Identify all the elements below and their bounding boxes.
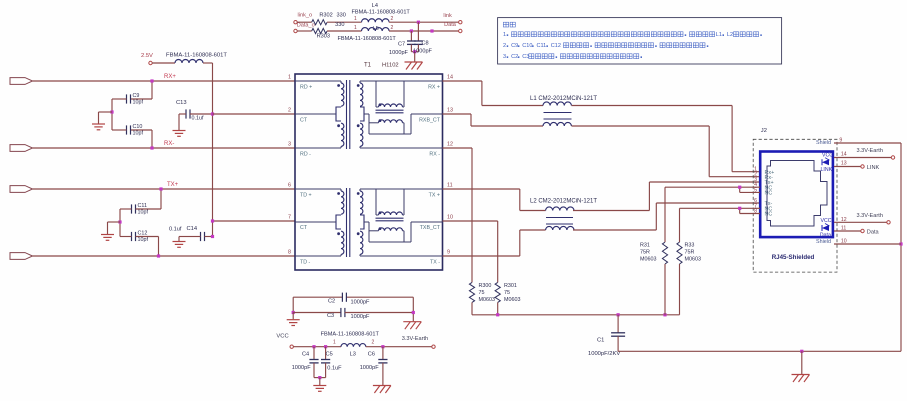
svg-text:TX -: TX - [430,260,440,266]
svg-text:VCC: VCC [822,152,833,158]
svg-text:2: 2 [503,43,506,49]
svg-text:TX+: TX+ [167,182,179,188]
svg-text:3.3V-Earth: 3.3V-Earth [857,213,883,219]
svg-text:13: 13 [841,161,847,167]
svg-text:C10: C10 [133,124,143,130]
svg-text:75: 75 [504,290,510,296]
svg-text:1: 1 [288,75,291,81]
svg-text:FBMA-11-160808-601T: FBMA-11-160808-601T [166,53,227,59]
svg-text:3: 3 [503,54,506,60]
svg-text:L1: L1 [716,32,722,38]
svg-text:330: 330 [335,22,344,28]
svg-text:2: 2 [391,16,394,22]
svg-text:RX+: RX+ [164,74,176,80]
svg-text:M0603: M0603 [685,257,701,263]
svg-text:0.1uf: 0.1uf [169,227,182,233]
svg-text:LINK: LINK [867,165,880,171]
svg-text:1000pF: 1000pF [351,300,371,306]
svg-text:TD +: TD + [300,193,312,199]
svg-text:10pf: 10pf [133,100,144,106]
svg-text:RXB_CT: RXB_CT [419,118,441,124]
svg-text:C9: C9 [511,43,518,49]
svg-text:6: 6 [288,183,291,189]
svg-text:C11: C11 [536,43,546,49]
svg-text:L2 CM2-2012MCiN-121T: L2 CM2-2012MCiN-121T [530,199,597,205]
svg-text:7: 7 [288,215,291,221]
svg-text:VCC: VCC [276,334,288,340]
svg-text:R33: R33 [685,243,695,249]
svg-text:C3: C3 [327,313,334,319]
svg-text:14: 14 [841,152,847,158]
svg-text:Shield: Shield [816,239,831,245]
svg-text:Data: Data [444,22,457,28]
svg-text:2: 2 [372,340,375,346]
svg-text:75R: 75R [640,250,650,256]
svg-text:10pf: 10pf [138,237,149,243]
svg-text:L4: L4 [372,3,378,9]
svg-text:RD -: RD - [300,152,311,158]
svg-text:R302: R302 [319,13,332,19]
svg-text:CT: CT [300,225,308,231]
svg-text:9: 9 [447,250,450,256]
svg-text:C5: C5 [326,351,333,357]
svg-text:C1: C1 [597,338,604,344]
svg-text:10: 10 [447,215,453,221]
svg-text:FBMA-11-160808-601T: FBMA-11-160808-601T [321,331,380,337]
svg-text:RX-: RX- [164,141,174,147]
svg-text:R301: R301 [504,283,517,289]
svg-text:C9: C9 [133,93,140,99]
svg-text:0.1uf: 0.1uf [192,116,204,122]
svg-text:3: 3 [288,142,291,148]
svg-text:1: 1 [333,340,336,346]
svg-text:link_o: link_o [298,13,313,19]
svg-text:2.5V: 2.5V [141,53,153,59]
svg-text:link: link [443,13,452,19]
svg-text:M0603: M0603 [479,297,495,303]
svg-text:C12: C12 [138,231,148,237]
svg-text:12: 12 [447,142,453,148]
svg-text:TX +: TX + [429,193,440,199]
svg-text:R300: R300 [479,283,492,289]
svg-text:Data: Data [867,229,880,235]
svg-text:C12: C12 [551,43,561,49]
svg-text:330: 330 [337,13,346,19]
svg-text:C2: C2 [511,54,518,60]
svg-text:TXB_CT: TXB_CT [420,225,441,231]
svg-text:LINK: LINK [821,167,833,173]
svg-text:L3: L3 [350,352,356,358]
svg-text:Shield: Shield [816,140,831,146]
svg-text:75R: 75R [685,250,695,256]
svg-text:M0603: M0603 [640,257,656,263]
svg-text:VCC: VCC [821,218,832,224]
svg-text:1000pF: 1000pF [292,365,312,371]
svg-text:10pf: 10pf [133,131,144,137]
svg-text:T1: T1 [364,63,372,69]
svg-text:1: 1 [503,32,506,38]
svg-text:RJ45-Shielded: RJ45-Shielded [772,254,815,261]
svg-text:C6: C6 [368,352,375,358]
svg-text:3.3V-Earth: 3.3V-Earth [857,148,883,154]
svg-text:10pf: 10pf [138,210,149,216]
svg-text:RX -: RX - [429,152,440,158]
svg-text:C4: C4 [302,351,309,357]
svg-text:C13: C13 [176,100,187,106]
svg-text:13: 13 [447,108,453,114]
svg-text:RD +: RD + [300,85,312,91]
svg-text:C14: C14 [187,226,198,232]
svg-text:0.1uF: 0.1uF [327,365,342,371]
svg-text:FBMA-11-160808-601T: FBMA-11-160808-601T [338,36,397,42]
svg-text:1: 1 [354,25,357,31]
svg-text:2: 2 [288,108,291,114]
svg-text:J2: J2 [761,128,767,134]
svg-text:H1102: H1102 [382,63,399,69]
svg-text:C10: C10 [522,43,532,49]
svg-text:75: 75 [479,290,485,296]
svg-text:Data: Data [820,232,831,238]
svg-text:TD -: TD - [300,260,311,266]
svg-text:NC: NC [765,191,773,197]
svg-text:3.3V-Earth: 3.3V-Earth [402,336,428,342]
svg-text:R303: R303 [317,34,330,40]
svg-text:1000pF: 1000pF [413,49,433,55]
svg-text:1000pF: 1000pF [351,314,371,320]
svg-text:C3: C3 [522,54,529,60]
svg-text:M0603: M0603 [504,297,520,303]
svg-text:1000pF/2KV: 1000pF/2KV [588,351,620,357]
svg-text:R31: R31 [640,243,650,249]
svg-text:2: 2 [391,25,394,31]
svg-text:RX +: RX + [428,85,440,91]
svg-text:1000pF: 1000pF [389,50,409,56]
svg-text:L1 CM2-2012MCiN-121T: L1 CM2-2012MCiN-121T [530,96,597,102]
svg-text:C7: C7 [398,42,405,48]
svg-text:C8: C8 [422,41,429,47]
svg-text:11: 11 [447,183,453,189]
svg-text:8: 8 [288,250,291,256]
svg-text:C2: C2 [328,298,335,304]
svg-text:1000pF: 1000pF [360,365,380,371]
svg-text:1: 1 [354,16,357,22]
svg-text:CT: CT [300,118,308,124]
svg-text:C11: C11 [138,203,148,209]
svg-text:NC: NC [765,212,773,218]
svg-text:L2: L2 [727,32,733,38]
svg-text:FBMA-11-160808-601T: FBMA-11-160808-601T [352,10,411,16]
svg-text:14: 14 [447,75,453,81]
svg-text:Data_o: Data_o [297,22,315,28]
